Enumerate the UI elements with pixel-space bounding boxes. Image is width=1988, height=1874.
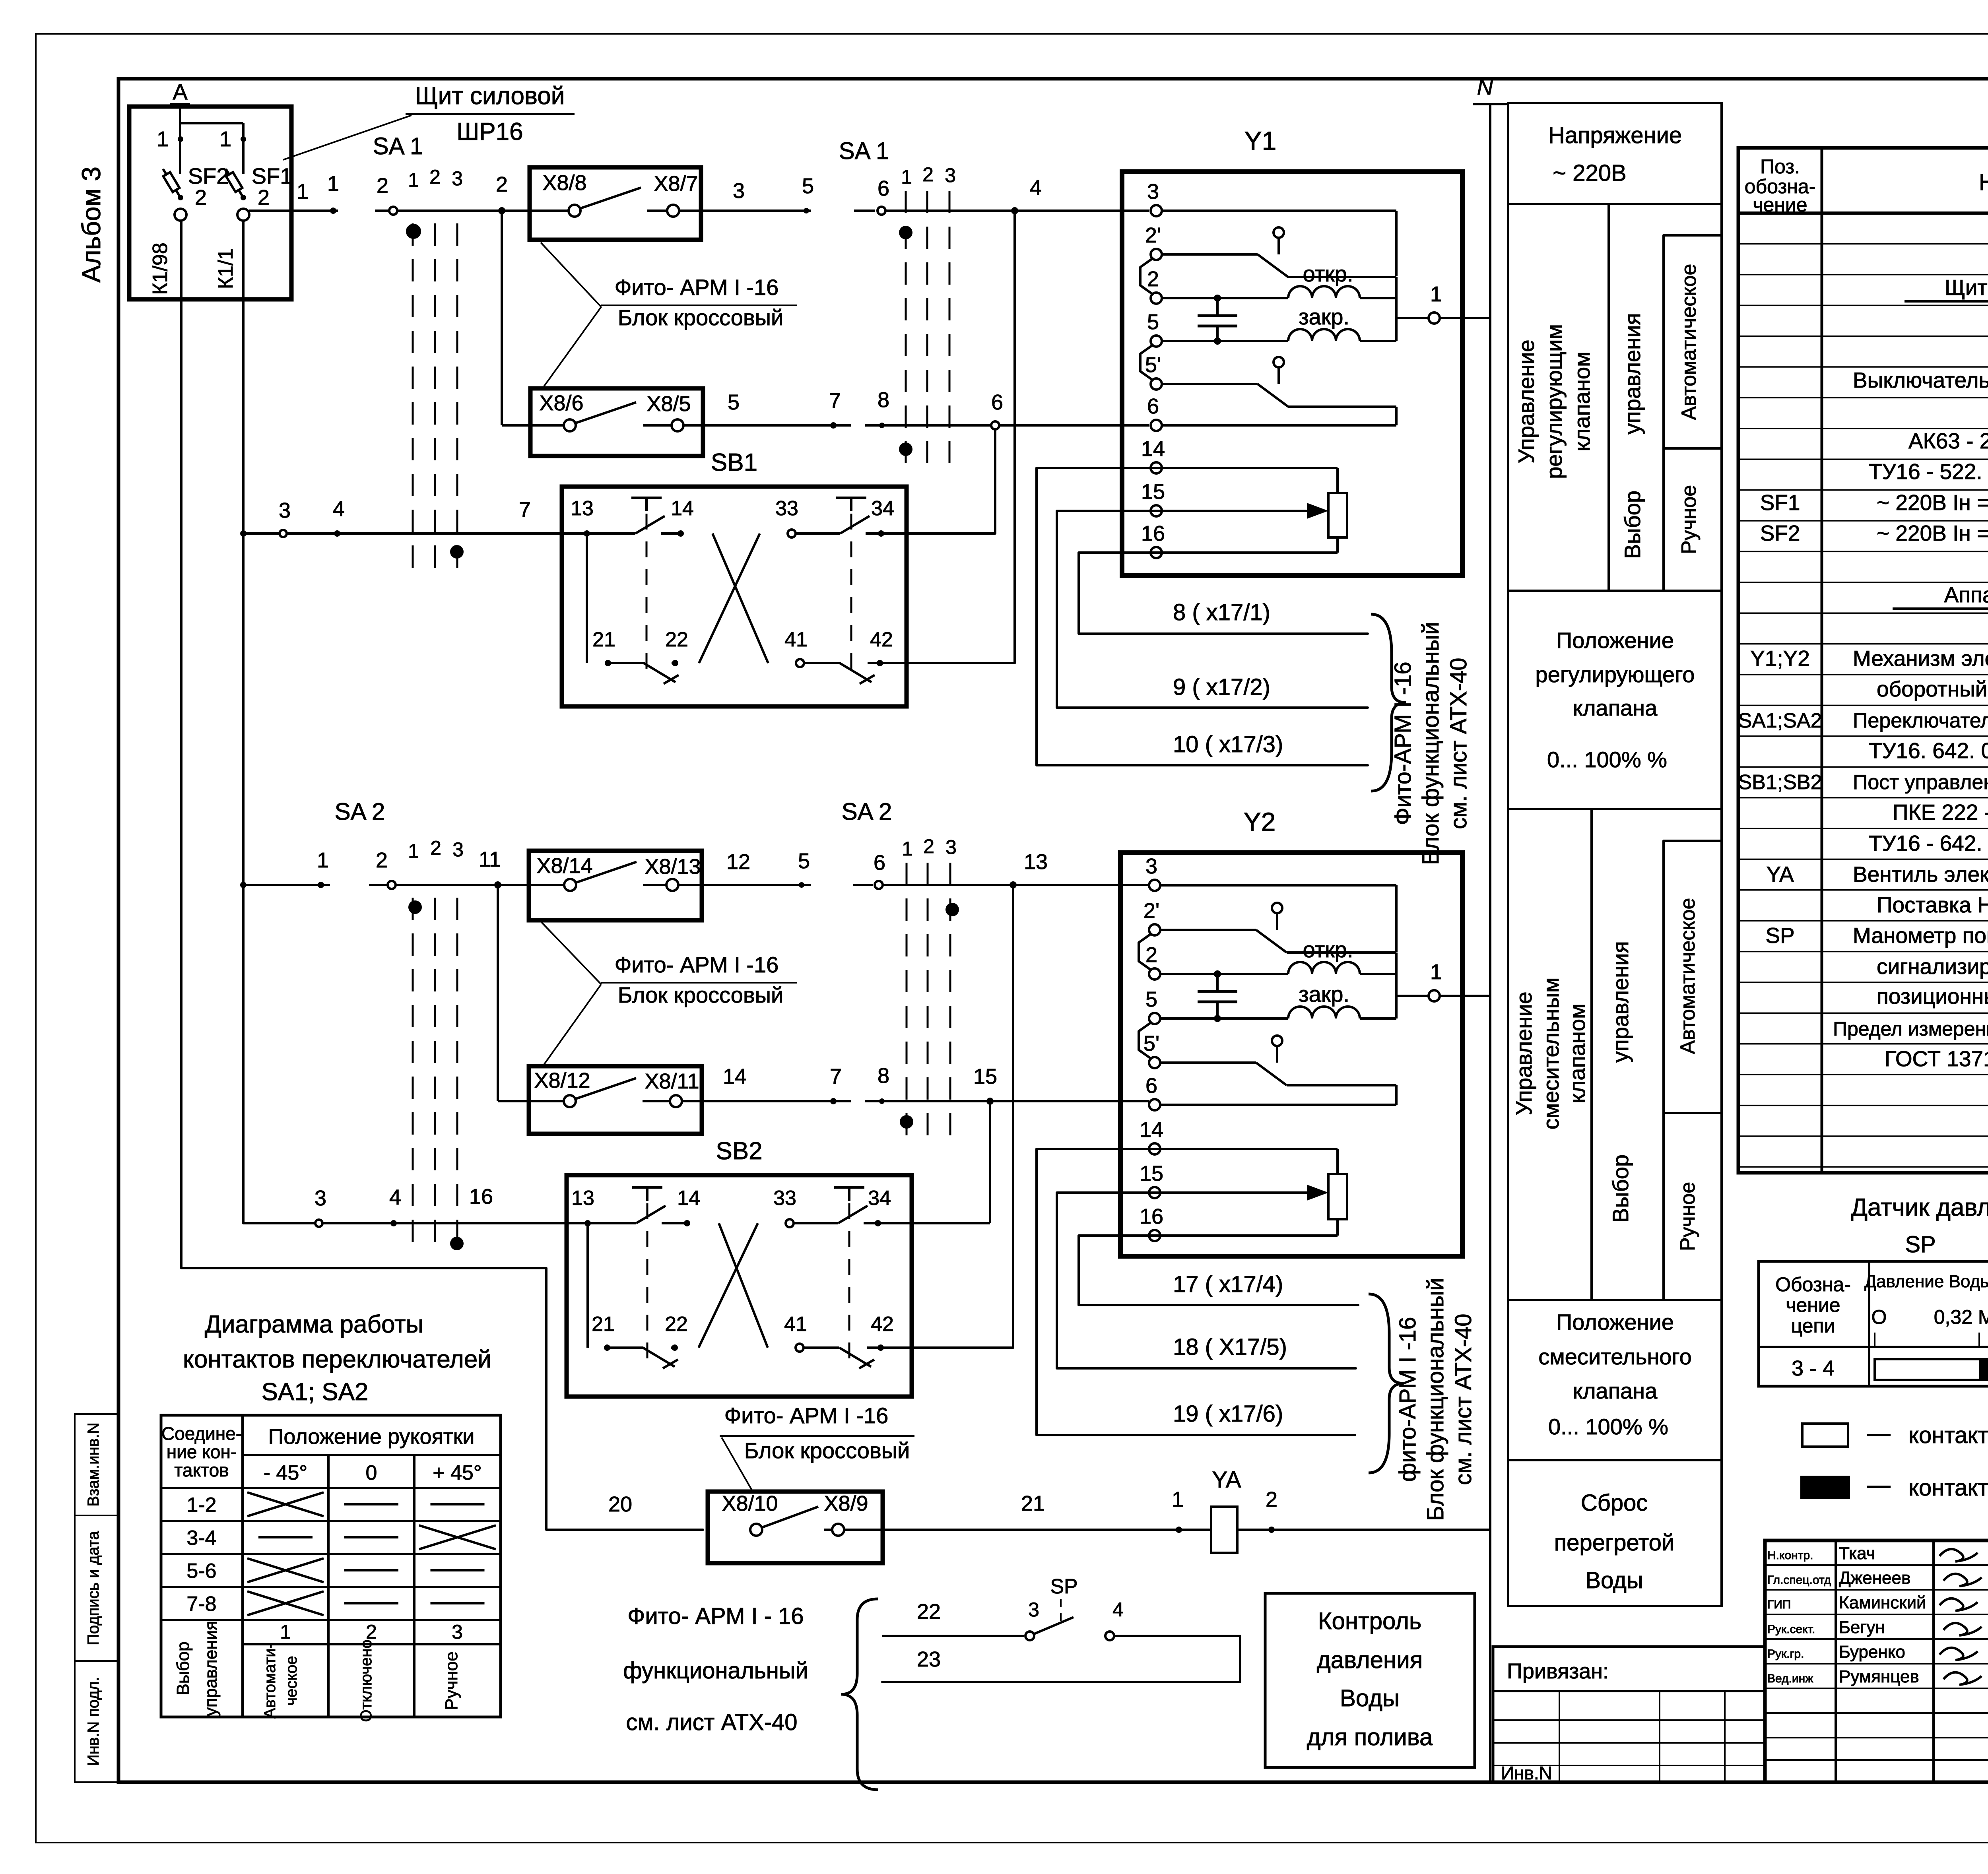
svg-text:4: 4 — [1112, 1599, 1124, 1621]
svg-text:Блок кроссовый: Блок кроссовый — [618, 305, 783, 330]
svg-text:Выключатель автоматический: Выключатель автоматический — [1853, 368, 1988, 392]
svg-text:2: 2 — [1147, 267, 1159, 291]
svg-text:7: 7 — [519, 498, 531, 522]
svg-text:9 ( x17/2): 9 ( x17/2) — [1173, 674, 1270, 700]
svg-text:ТУ16 - 522. 140 - 78: ТУ16 - 522. 140 - 78 — [1869, 459, 1988, 484]
svg-text:X8/14: X8/14 — [536, 854, 592, 878]
label net 10 x17/3 — [1173, 731, 1283, 757]
svg-text:15: 15 — [1140, 1162, 1163, 1185]
svg-text:5-6: 5-6 — [186, 1560, 216, 1583]
svg-text:1: 1 — [317, 848, 329, 872]
svg-text:5': 5' — [1143, 1032, 1159, 1055]
svg-text:управления: управления — [1620, 313, 1645, 434]
svg-text:~ 220В: ~ 220В — [1553, 160, 1626, 186]
parts table rows text — [1738, 275, 1988, 1071]
svg-text:закр.: закр. — [1299, 304, 1349, 329]
box Kontrol davleniya — [1265, 1593, 1475, 1767]
wire K1/98 long run — [181, 1268, 703, 1530]
label Fito-ARM functional bottom-left — [623, 1603, 808, 1735]
svg-text:15: 15 — [973, 1065, 997, 1088]
svg-text:5: 5 — [1147, 310, 1159, 334]
svg-text:Блок кроссовый: Блок кроссовый — [618, 982, 783, 1007]
wire gap and SA2 contact 6 — [853, 851, 1149, 889]
svg-text:SP: SP — [1050, 1575, 1077, 1598]
svg-text:Аппаратура по месту: Аппаратура по месту — [1944, 582, 1988, 607]
svg-text:Механизм электрический одно-: Механизм электрический одно- — [1853, 646, 1988, 671]
svg-text:N: N — [1477, 74, 1493, 99]
svg-text:2: 2 — [1266, 1488, 1277, 1511]
svg-text:5: 5 — [798, 849, 810, 873]
svg-text:4: 4 — [1030, 176, 1042, 200]
label net 8 x17/1 — [1173, 599, 1270, 625]
svg-text:чение: чение — [1786, 1294, 1840, 1316]
svg-text:Выбор: Выбор — [1620, 491, 1645, 559]
brace SP group — [841, 1599, 878, 1790]
switch SA1 right group label — [839, 138, 956, 188]
svg-text:регулирующего: регулирующего — [1536, 662, 1695, 687]
svg-text:SA 2: SA 2 — [842, 798, 892, 825]
label Fito-ARM1-16 Blok krossovy middle — [542, 922, 797, 1065]
svg-text:Инв.N: Инв.N — [1501, 1763, 1552, 1783]
svg-text:8: 8 — [878, 1064, 889, 1088]
svg-text:ПКЕ 222 - 2У2: ПКЕ 222 - 2У2 — [1893, 800, 1988, 824]
label Fito-ARM1-16 Blok krossovy upper — [541, 242, 797, 386]
svg-text:+ 45°: + 45° — [433, 1461, 481, 1484]
margin box Inv.N podl — [75, 1661, 118, 1782]
svg-text:Пост управления кнопочный: Пост управления кнопочный — [1853, 771, 1988, 794]
svg-text:Взам.инв.N: Взам.инв.N — [85, 1422, 102, 1507]
svg-text:SP: SP — [1765, 923, 1794, 948]
svg-text:8: 8 — [878, 388, 889, 412]
svg-text:14: 14 — [677, 1187, 700, 1210]
band box Polozhenie reguliruyushchego — [1508, 591, 1722, 809]
svg-text:ТУ16. 642. 046 - 86: ТУ16. 642. 046 - 86 — [1869, 738, 1988, 763]
svg-text:SF2: SF2 — [1760, 521, 1800, 545]
svg-text:см. лист АТХ-40: см. лист АТХ-40 — [626, 1709, 797, 1735]
svg-text:15: 15 — [1141, 480, 1165, 504]
svg-text:~ 220В Iн = 5 А: ~ 220В Iн = 5 А — [1877, 490, 1988, 515]
contact X8/10 — [608, 1492, 778, 1536]
svg-text:X8/9: X8/9 — [824, 1492, 868, 1515]
band box Upravlenie reguliruyushchim — [1508, 204, 1722, 591]
margin label Album 3 — [76, 167, 106, 283]
svg-text:41: 41 — [784, 1313, 807, 1336]
svg-text:Бегун: Бегун — [1839, 1618, 1885, 1637]
svg-text:оборотный МЭО - 0.63: оборотный МЭО - 0.63 — [1877, 677, 1988, 701]
label Fito-ARM functional block group1 — [1390, 622, 1472, 865]
svg-text:Щит силовой: Щит силовой — [415, 82, 565, 110]
svg-text:1: 1 — [327, 172, 339, 196]
svg-text:14: 14 — [1140, 1118, 1163, 1142]
svg-text:SF1: SF1 — [1760, 490, 1800, 515]
svg-text:19 ( x17/6): 19 ( x17/6) — [1173, 1401, 1283, 1427]
svg-text:Фито-АРМ I -16: Фито-АРМ I -16 — [1390, 662, 1416, 825]
svg-text:давления: давления — [1317, 1647, 1423, 1673]
brace x17 group 1 — [1371, 614, 1406, 791]
svg-text:тактов: тактов — [174, 1460, 229, 1480]
svg-text:YA: YA — [1766, 862, 1794, 887]
svg-text:2': 2' — [1143, 899, 1159, 923]
SA2 marker dot right row2 — [900, 1115, 913, 1129]
svg-text:A: A — [173, 79, 188, 104]
label diagram title — [183, 1311, 491, 1406]
svg-text:1: 1 — [1172, 1488, 1184, 1511]
svg-text:SB1: SB1 — [711, 449, 757, 476]
svg-text:Манометр показывающий: Манометр показывающий — [1853, 923, 1988, 948]
title block main frame — [1765, 1540, 1988, 1782]
label Shchit silovoy ShR16 — [283, 82, 575, 160]
svg-text:13: 13 — [1024, 850, 1048, 874]
svg-text:Положение рукоятки: Положение рукоятки — [268, 1425, 475, 1449]
connector block X8/10 X8/9 — [708, 1492, 883, 1563]
svg-text:3: 3 — [452, 167, 463, 190]
svg-text:Фито- АРМ I -16: Фито- АРМ I -16 — [615, 952, 779, 977]
wire terminal 8 SA2 — [865, 1064, 1149, 1104]
svg-text:X8/10: X8/10 — [722, 1492, 778, 1515]
svg-text:2: 2 — [429, 166, 441, 188]
svg-text:Наименование: Наименование — [1979, 169, 1988, 195]
svg-text:SF1: SF1 — [252, 163, 293, 188]
svg-text:SA1; SA2: SA1; SA2 — [262, 1378, 369, 1406]
svg-text:ГИП: ГИП — [1767, 1598, 1791, 1611]
wire net 14 7 — [723, 1065, 842, 1104]
svg-text:SB2: SB2 — [716, 1137, 762, 1165]
svg-text:3: 3 — [945, 164, 956, 186]
svg-text:Переключатель ПКУ3-38С-2004У3: Переключатель ПКУ3-38С-2004У3 — [1853, 709, 1988, 732]
svg-text:Положение: Положение — [1556, 1309, 1674, 1335]
svg-text:Положение: Положение — [1556, 628, 1674, 653]
svg-text:Давление Воды после насоса: Давление Воды после насоса — [1864, 1272, 1988, 1291]
connector block X8/6 X8/5 — [530, 388, 703, 456]
svg-text:клапаном: клапаном — [1569, 352, 1594, 452]
SA2 marker dot right row1 — [945, 903, 959, 916]
svg-text:ние кон-: ние кон- — [167, 1441, 237, 1462]
actuator Y2 — [1120, 807, 1490, 1256]
svg-text:Ручное: Ручное — [442, 1651, 461, 1710]
wire net 1 SA2 — [240, 848, 330, 888]
title block attachment Privyazan — [1493, 1647, 1765, 1783]
svg-text:1: 1 — [1430, 282, 1442, 306]
label Fito-ARM functional block group2 — [1395, 1278, 1476, 1521]
wire gap and SA1 contact 6 — [854, 177, 1149, 215]
contact diagram table — [161, 1415, 501, 1722]
junction net 13 — [1010, 850, 1048, 1348]
svg-text:7: 7 — [829, 389, 841, 413]
svg-text:42: 42 — [871, 1313, 894, 1336]
contact X8/9 blade — [762, 1492, 1211, 1536]
button post SB1 — [562, 449, 1015, 706]
svg-text:Предел измерения 0...0.6МПа(0.: Предел измерения 0...0.6МПа(0...6 кг/см — [1833, 1018, 1988, 1040]
svg-text:3: 3 — [279, 499, 291, 522]
label net 18 x17/5 — [1173, 1334, 1287, 1360]
svg-text:1: 1 — [219, 127, 231, 151]
svg-text:Подпись и дата: Подпись и дата — [85, 1531, 102, 1645]
svg-text:Воды: Воды — [1585, 1567, 1643, 1593]
svg-text:Вед.инж: Вед.инж — [1767, 1672, 1813, 1685]
svg-text:Буренко: Буренко — [1839, 1642, 1905, 1662]
switch SA1 contact 2 — [375, 174, 502, 215]
svg-text:12: 12 — [726, 850, 750, 874]
svg-text:Блок функциональный: Блок функциональный — [1418, 622, 1444, 865]
switch SA2 right group label — [842, 798, 957, 860]
svg-text:SA 2: SA 2 — [335, 798, 385, 825]
svg-text:1: 1 — [280, 1621, 291, 1643]
svg-text:3: 3 — [1147, 180, 1159, 204]
svg-text:Отключено: Отключено — [357, 1639, 375, 1722]
wire net 21 — [1021, 1488, 1184, 1533]
svg-text:О: О — [1872, 1306, 1887, 1328]
svg-text:Каминский: Каминский — [1839, 1593, 1926, 1612]
svg-text:для полива: для полива — [1307, 1724, 1433, 1750]
svg-text:сигнализирующий двух -: сигнализирующий двух - — [1877, 954, 1988, 979]
svg-text:6: 6 — [1145, 1074, 1157, 1098]
svg-text:3: 3 — [452, 838, 464, 861]
svg-text:X8/13: X8/13 — [645, 855, 701, 879]
svg-text:Рук.сект.: Рук.сект. — [1767, 1623, 1815, 1636]
svg-text:Воды: Воды — [1340, 1685, 1400, 1711]
svg-text:1: 1 — [157, 127, 169, 151]
svg-text:Автоматическое: Автоматическое — [1677, 264, 1701, 420]
svg-text:10 ( x17/3): 10 ( x17/3) — [1173, 731, 1283, 757]
svg-text:SB1;SB2: SB1;SB2 — [1738, 771, 1822, 794]
svg-text:1-2: 1-2 — [186, 1494, 216, 1517]
junction net 11 — [479, 848, 501, 889]
svg-text:0: 0 — [366, 1461, 377, 1484]
svg-text:11: 11 — [479, 848, 501, 871]
SA1 marker dot row1 — [407, 225, 420, 238]
wire net 23 return — [882, 1636, 1240, 1682]
svg-text:контактов переключателей: контактов переключателей — [183, 1346, 491, 1373]
svg-text:Ручное: Ручное — [1676, 1182, 1699, 1251]
svg-text:1: 1 — [902, 838, 913, 860]
switch SA1 left group label — [373, 133, 463, 191]
svg-text:41: 41 — [784, 628, 808, 651]
wire drop to X8/12 — [498, 885, 567, 1101]
wire SF bridge — [180, 123, 243, 174]
contact X8/11 blade — [576, 1069, 851, 1107]
svg-text:Ткач: Ткач — [1839, 1544, 1875, 1563]
svg-text:21: 21 — [1021, 1492, 1045, 1515]
label net 19 x17/6 — [1173, 1401, 1283, 1427]
svg-text:16: 16 — [1140, 1205, 1163, 1228]
label net 9 x17/2 — [1173, 674, 1270, 700]
svg-text:Фито- АРМ I -16: Фито- АРМ I -16 — [724, 1403, 889, 1428]
svg-text:К1/1: К1/1 — [214, 248, 237, 289]
svg-text:6: 6 — [1147, 394, 1159, 418]
junction net 2 — [496, 173, 508, 214]
svg-text:23: 23 — [917, 1647, 941, 1671]
svg-text:SF2: SF2 — [188, 163, 229, 188]
actuator Y1 — [1122, 126, 1490, 576]
svg-text:Выбор: Выбор — [173, 1641, 193, 1695]
button post SB2 — [567, 1137, 1013, 1397]
wire Y2 output lines x17 — [1037, 1149, 1358, 1435]
contact X8/5 blade — [576, 392, 851, 431]
svg-text:7-8: 7-8 — [186, 1593, 216, 1616]
svg-text:контакт открыт: контакт открыт — [1908, 1422, 1988, 1448]
svg-text:Н.контр.: Н.контр. — [1767, 1549, 1813, 1562]
svg-text:Контроль: Контроль — [1318, 1608, 1422, 1634]
svg-text:X8/7: X8/7 — [654, 172, 698, 196]
junction net 4 — [1011, 176, 1042, 663]
svg-text:1: 1 — [408, 169, 419, 191]
svg-text:7: 7 — [830, 1065, 842, 1088]
parts table grid — [1738, 148, 1988, 1173]
svg-text:Рук.гр.: Рук.гр. — [1767, 1647, 1804, 1661]
solenoid valve YA — [1211, 1467, 1490, 1553]
svg-text:13: 13 — [571, 1187, 594, 1210]
svg-text:5: 5 — [1145, 987, 1157, 1011]
contact X8/8 — [502, 171, 587, 217]
svg-text:Фито- АРМ I -16: Фито- АРМ I -16 — [615, 275, 779, 300]
svg-text:21: 21 — [592, 628, 615, 651]
contact X8/12 — [534, 1069, 590, 1107]
svg-text:SP: SP — [1905, 1232, 1936, 1257]
wire Y1 output lines x17 — [1037, 468, 1368, 765]
svg-text:3: 3 — [452, 1621, 463, 1643]
svg-text:ШР16: ШР16 — [456, 118, 523, 145]
svg-text:см. лист АТХ-40: см. лист АТХ-40 — [1446, 658, 1472, 829]
svg-text:1: 1 — [1430, 960, 1442, 984]
switch SA2 left group label — [335, 798, 464, 862]
svg-text:см. лист АТХ-40: см. лист АТХ-40 — [1450, 1313, 1476, 1485]
band box Napryazhenie 220V — [1508, 103, 1722, 204]
svg-text:клапана: клапана — [1573, 695, 1658, 720]
brace x17 group 2 — [1369, 1294, 1404, 1473]
svg-text:16: 16 — [469, 1185, 493, 1209]
band box Polozhenie smesitelnogo — [1508, 1300, 1722, 1460]
pressure sensor table — [1759, 1261, 1988, 1386]
svg-text:ГОСТ 13717- 84: ГОСТ 13717- 84 — [1885, 1046, 1988, 1071]
wire net 3 4 16 to SB2 — [243, 1185, 586, 1227]
svg-text:Альбом 3: Альбом 3 — [76, 167, 106, 283]
contact X8/6 — [539, 391, 583, 431]
legend contact open — [1802, 1422, 1988, 1448]
svg-text:Управление: Управление — [1511, 991, 1536, 1115]
wire K1/98 — [149, 221, 181, 1268]
svg-text:управления: управления — [1608, 941, 1633, 1062]
svg-text:20: 20 — [608, 1492, 632, 1516]
svg-text:13: 13 — [571, 497, 594, 520]
SA1 contact 6 terminal to SB1-34 — [886, 390, 1003, 533]
svg-text:3: 3 — [733, 179, 745, 203]
svg-text:6: 6 — [878, 177, 889, 200]
svg-text:Управление: Управление — [1514, 339, 1539, 463]
svg-text:X8/8: X8/8 — [542, 171, 586, 195]
svg-text:4: 4 — [333, 497, 345, 521]
switch SA2 left dashed positions — [413, 898, 457, 1248]
junction net 15 to SB2-34 — [885, 1065, 997, 1223]
wire net 5 7 — [728, 389, 841, 429]
svg-text:6: 6 — [874, 851, 885, 875]
svg-text:8 ( x17/1): 8 ( x17/1) — [1173, 599, 1270, 625]
svg-text:ческое: ческое — [283, 1656, 300, 1706]
SA1 marker dot right row2 — [899, 442, 912, 456]
svg-text:YA: YA — [1212, 1467, 1241, 1493]
SA2 marker dot left row1 — [408, 900, 422, 914]
svg-text:Соедине-: Соедине- — [161, 1423, 242, 1444]
svg-text:регулирующим: регулирующим — [1541, 324, 1567, 479]
label Datchik davleniya SP — [1851, 1194, 1988, 1257]
svg-text:0... 100% %: 0... 100% % — [1547, 747, 1667, 772]
svg-text:SA1;SA2: SA1;SA2 — [1738, 709, 1822, 732]
switch SA1 left dashed positions — [413, 223, 457, 577]
svg-text:Дженеев: Дженеев — [1839, 1568, 1910, 1588]
svg-text:чение: чение — [1753, 194, 1807, 216]
svg-text:2: 2 — [377, 174, 388, 198]
svg-text:позиционный ЭКМ-1У: позиционный ЭКМ-1У — [1877, 984, 1988, 1009]
SA2 marker dot left row2 — [450, 1237, 464, 1250]
svg-text:5: 5 — [802, 174, 814, 198]
label net 17 x17/4 — [1173, 1271, 1283, 1297]
svg-text:14: 14 — [671, 497, 694, 520]
svg-text:2: 2 — [922, 163, 934, 186]
svg-text:1: 1 — [297, 180, 309, 204]
svg-text:5': 5' — [1145, 353, 1161, 377]
switch SA2 right dashed positions — [907, 863, 950, 1138]
svg-text:5: 5 — [728, 390, 740, 414]
svg-text:Обозна-: Обозна- — [1775, 1273, 1851, 1296]
svg-text:функциональный: функциональный — [623, 1658, 808, 1684]
svg-text:Датчик давления: Датчик давления — [1851, 1194, 1988, 1221]
svg-text:2: 2 — [258, 186, 270, 210]
parts table header — [1745, 155, 1988, 216]
svg-text:2: 2 — [376, 848, 388, 872]
svg-text:Привязан:: Привязан: — [1507, 1659, 1609, 1683]
connector block X8/14 X8/13 — [529, 851, 702, 920]
svg-text:смесительного: смесительного — [1538, 1344, 1692, 1369]
SA1 marker dot left row2 — [450, 545, 464, 559]
margin box Podpis i data — [75, 1515, 118, 1661]
svg-text:К1/98: К1/98 — [149, 242, 172, 295]
svg-text:ТУ16 - 642. 006 - 83: ТУ16 - 642. 006 - 83 — [1869, 831, 1988, 856]
svg-text:Автоматическое: Автоматическое — [1676, 898, 1699, 1054]
connector block X8/12 X8/11 — [529, 1066, 702, 1134]
svg-text:перегретой: перегретой — [1554, 1530, 1675, 1556]
svg-text:клапаном: клапаном — [1565, 1004, 1590, 1104]
connector block X8/8 X8/7 — [530, 167, 701, 240]
pressure switch SP — [1025, 1575, 1240, 1640]
wire K1/1 — [214, 221, 243, 1223]
svg-text:- 45°: - 45° — [264, 1461, 307, 1484]
svg-text:X8/12: X8/12 — [534, 1069, 590, 1092]
svg-text:Щит силовой ШР16: Щит силовой ШР16 — [1945, 275, 1988, 300]
breaker SF1 — [219, 127, 292, 221]
wire net 12 5 — [726, 849, 810, 888]
svg-text:18 ( X17/5): 18 ( X17/5) — [1173, 1334, 1287, 1360]
svg-text:X8/11: X8/11 — [645, 1069, 699, 1093]
svg-text:Румянцев: Румянцев — [1839, 1667, 1919, 1686]
wire terminal 8 — [865, 388, 1149, 428]
svg-text:33: 33 — [773, 1187, 796, 1210]
svg-text:Диаграмма работы: Диаграмма работы — [205, 1311, 423, 1338]
svg-text:2: 2 — [430, 837, 441, 859]
svg-text:16: 16 — [1141, 522, 1165, 545]
svg-text:42: 42 — [870, 628, 893, 651]
svg-text:0,32 МПа: 0,32 МПа — [1934, 1306, 1988, 1328]
svg-text:14: 14 — [723, 1065, 747, 1088]
svg-text:откр.: откр. — [1303, 261, 1353, 286]
svg-text:22: 22 — [917, 1600, 941, 1624]
svg-text:34: 34 — [868, 1187, 891, 1210]
svg-text:закр.: закр. — [1299, 982, 1349, 1007]
svg-text:цепи: цепи — [1791, 1315, 1835, 1337]
wire net 22 SP — [882, 1600, 1024, 1636]
node N arrow and line — [1473, 74, 1507, 1782]
svg-text:АК63 - 2МУ2: АК63 - 2МУ2 — [1908, 429, 1988, 453]
svg-text:3 - 4: 3 - 4 — [1792, 1356, 1835, 1380]
svg-text:Y1: Y1 — [1244, 126, 1277, 155]
